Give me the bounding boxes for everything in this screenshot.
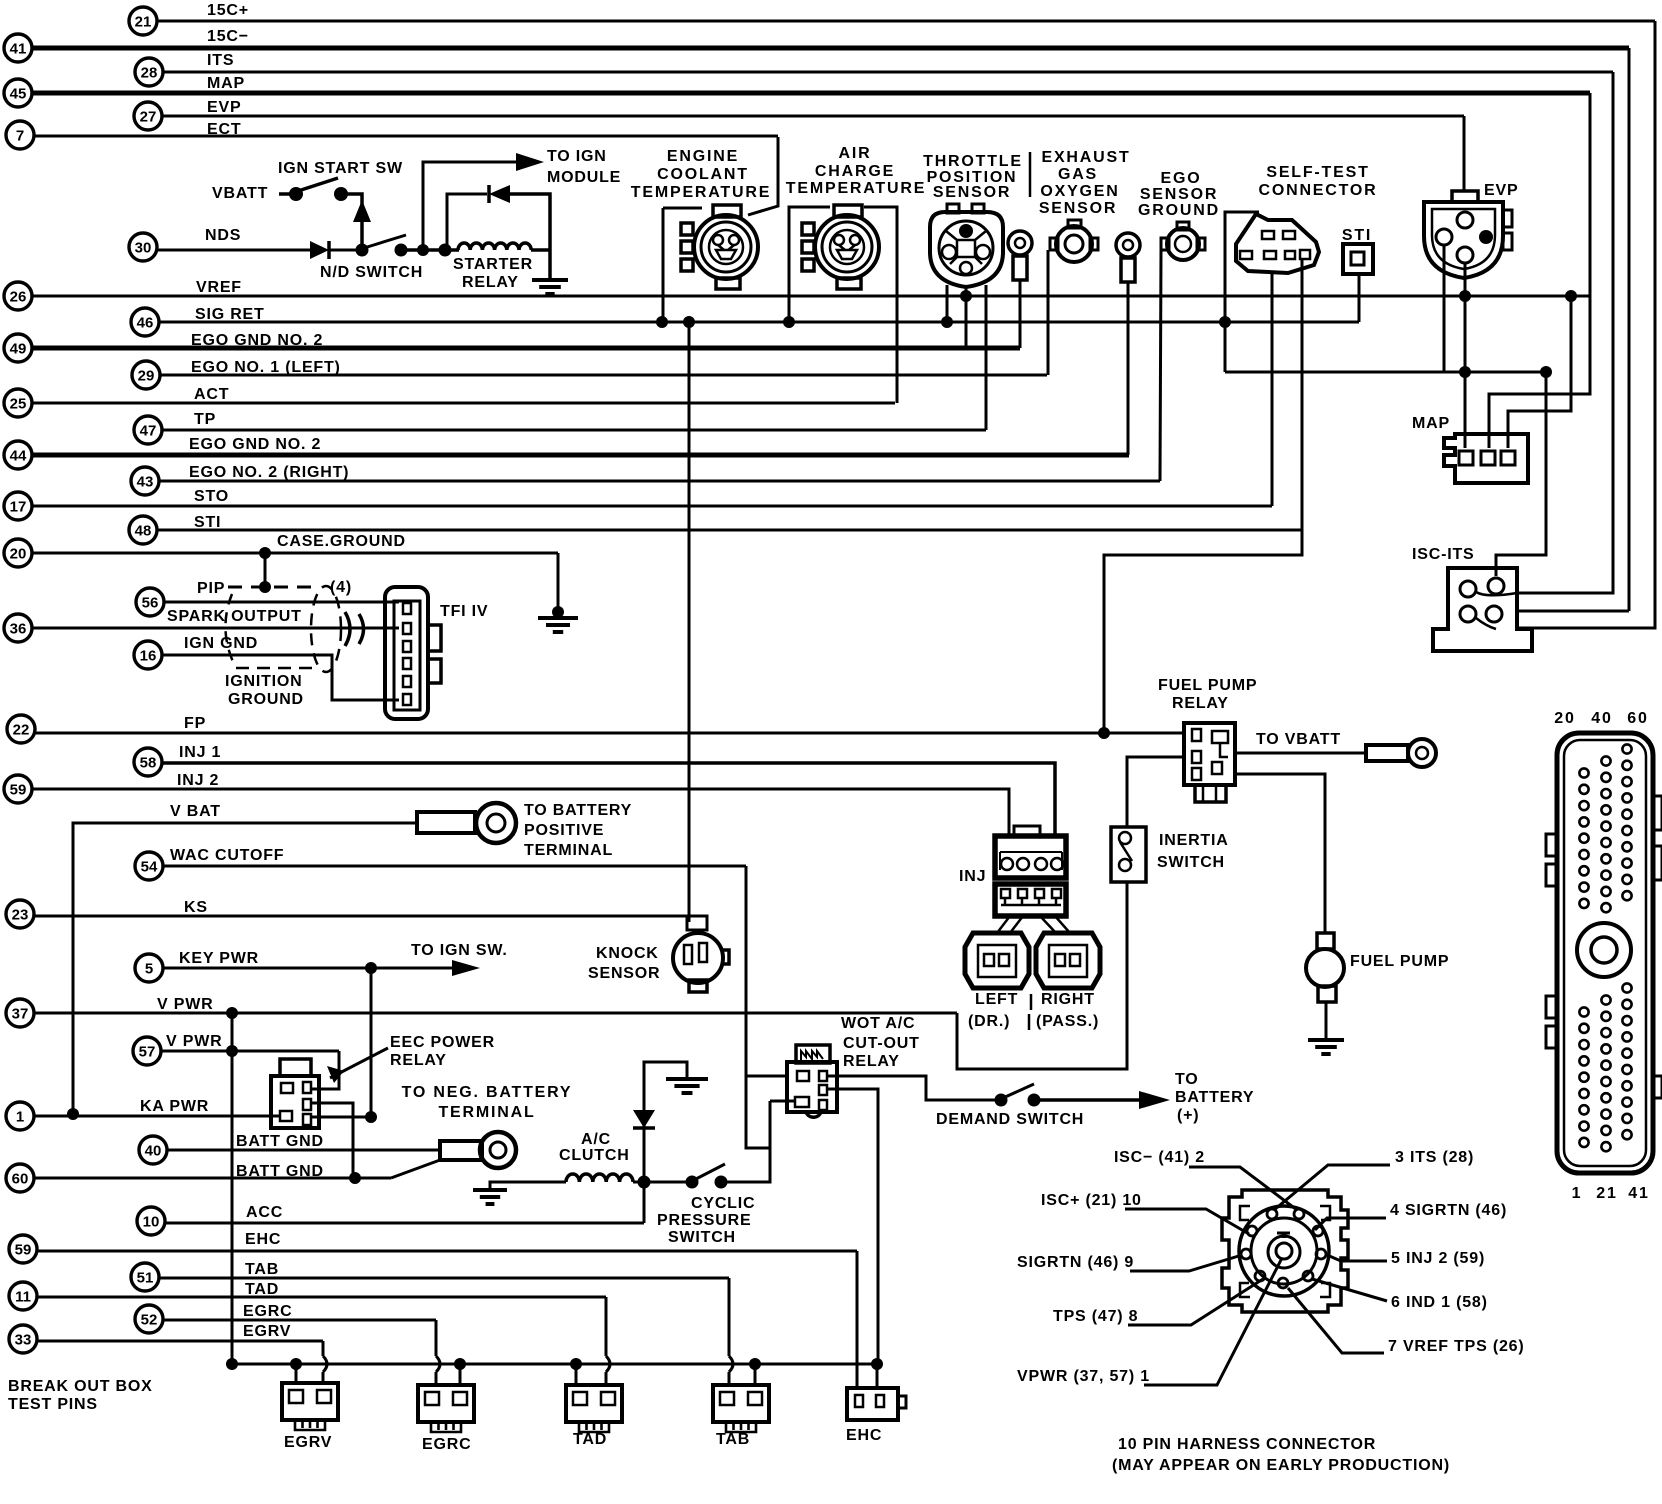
self-test connector	[1236, 214, 1319, 273]
svg-text:56: 56	[142, 595, 159, 612]
svg-text:THROTTLE: THROTTLE	[923, 153, 1023, 170]
arrow to ign sw	[452, 960, 480, 976]
harness dash left arc	[225, 594, 234, 664]
pin 22	[7, 715, 35, 743]
VBATT ring terminal	[1366, 739, 1436, 767]
svg-text:CHARGE: CHARGE	[815, 163, 895, 180]
wire STI box to SIG RET	[1358, 274, 1361, 322]
wire TAB drop	[728, 1278, 731, 1356]
wire EVP center pin down to MAP pin1	[1464, 263, 1467, 448]
contact demand 2	[1028, 1094, 1041, 1107]
wire EGRC from pin 52	[163, 1319, 436, 1322]
TFI IV connector	[385, 587, 441, 719]
svg-text:28: 28	[141, 65, 158, 82]
pin 60	[6, 1164, 34, 1192]
svg-text:FP: FP	[184, 715, 206, 732]
inertia switch	[1111, 827, 1146, 882]
pin 54	[135, 852, 163, 880]
contact cyclic 1	[686, 1176, 699, 1189]
svg-text:11: 11	[15, 1289, 31, 1306]
pin 36	[4, 614, 32, 642]
fuel pump relay	[1184, 723, 1235, 802]
wire WOT to demand switch	[827, 1076, 1001, 1100]
svg-text:26: 26	[10, 289, 27, 306]
lead SIGRTN 4	[1315, 1218, 1386, 1230]
EGRV hop	[323, 1356, 327, 1372]
pin 27	[134, 102, 162, 130]
ground starter relay	[532, 280, 568, 294]
wire line B self-test to ISC	[1225, 371, 1546, 374]
svg-text:7 VREF TPS (26): 7 VREF TPS (26)	[1388, 1338, 1524, 1355]
wire ECT from pin 7	[34, 135, 778, 138]
node V BAT to KA PWR	[67, 1108, 79, 1120]
pin 49	[4, 334, 32, 362]
svg-text:36: 36	[10, 621, 27, 638]
wire EGRC drop2	[435, 1372, 438, 1385]
svg-text:ISC+ (21) 10: ISC+ (21) 10	[1041, 1192, 1142, 1209]
svg-text:IGN START SW: IGN START SW	[278, 160, 403, 177]
wire ACC from pin 10	[165, 1222, 644, 1225]
svg-text:TERMINAL: TERMINAL	[524, 842, 613, 859]
svg-text:VPWR (37, 57) 1: VPWR (37, 57) 1	[1017, 1368, 1150, 1385]
wire 15C- from pin 41	[32, 46, 1629, 51]
arrow up to ign start sw	[353, 200, 371, 222]
node bus 460	[454, 1358, 466, 1370]
svg-text:51: 51	[137, 1270, 154, 1287]
svg-text:48: 48	[135, 523, 152, 540]
svg-text:STARTER: STARTER	[453, 256, 533, 273]
battery negative ring terminal	[440, 1132, 516, 1168]
svg-text:EGO GND NO. 2: EGO GND NO. 2	[191, 332, 323, 349]
arrow line eec relay	[330, 1048, 388, 1078]
svg-text:60: 60	[12, 1171, 29, 1188]
lead TPS 8	[1128, 1279, 1263, 1325]
svg-text:TO IGN SW.: TO IGN SW.	[411, 942, 508, 959]
wire ITS vertical to ISC-ITS	[1517, 72, 1613, 593]
svg-text:V BAT: V BAT	[170, 803, 221, 820]
wire V PWR to inertia switch	[957, 882, 1127, 1069]
svg-text:3 ITS (28): 3 ITS (28)	[1395, 1149, 1474, 1166]
node SIG RET ect	[656, 316, 668, 328]
wire bus to TAD	[575, 1364, 578, 1385]
svg-text:SIG RET: SIG RET	[195, 306, 265, 323]
wire bus to TAB	[754, 1364, 757, 1385]
pin 7	[6, 121, 34, 149]
wire eec bottom pin to key pwr	[311, 1116, 371, 1119]
dashed harness PIP line	[228, 586, 318, 589]
AC clutch coil	[566, 1174, 633, 1182]
wire V BAT	[73, 823, 417, 1114]
wire KA PWR from pin 1	[34, 1115, 280, 1118]
svg-text:TEMPERATURE: TEMPERATURE	[631, 184, 771, 201]
WOT AC cut-out relay	[787, 1045, 837, 1117]
arrowhead eec	[327, 1066, 344, 1083]
svg-text:20: 20	[10, 546, 27, 563]
svg-text:ISC-ITS: ISC-ITS	[1412, 546, 1475, 563]
svg-text:A/C: A/C	[581, 1131, 611, 1148]
pin 29	[132, 361, 160, 389]
node lineB isc	[1540, 366, 1552, 378]
svg-text:17: 17	[10, 499, 27, 516]
svg-text:CLUTCH: CLUTCH	[559, 1147, 630, 1164]
ground AC clutch	[473, 1190, 507, 1204]
pin 11	[9, 1282, 37, 1310]
svg-text:MODULE: MODULE	[547, 169, 621, 186]
ign start switch arm	[298, 178, 338, 191]
wire EGO gnd connector down	[1160, 250, 1161, 481]
EEC power relay	[271, 1059, 319, 1128]
diode NDS	[310, 241, 329, 259]
wire inj plug 4	[1055, 916, 1070, 933]
diode starter relay	[489, 185, 510, 203]
pin 43	[131, 467, 159, 495]
svg-text:GROUND: GROUND	[1138, 202, 1220, 219]
svg-text:49: 49	[10, 341, 27, 358]
svg-text:ECT: ECT	[207, 121, 241, 138]
node bus 755	[749, 1358, 761, 1370]
svg-text:37: 37	[12, 1006, 29, 1023]
svg-text:RELAY: RELAY	[462, 274, 519, 291]
wire eec mid pin to batt gnd	[311, 1103, 353, 1178]
wire EGO NO.1 from pin 29	[160, 374, 1047, 377]
pin 33	[9, 1325, 37, 1353]
svg-text:22: 22	[13, 722, 30, 739]
svg-text:TO NEG. BATTERY: TO NEG. BATTERY	[402, 1084, 573, 1101]
svg-text:IGNITION: IGNITION	[225, 673, 303, 690]
pin 30	[129, 233, 157, 261]
svg-text:TFI IV: TFI IV	[440, 603, 488, 620]
pin 37	[6, 999, 34, 1027]
knock sensor	[673, 916, 729, 992]
lead VREF TPS	[1288, 1288, 1384, 1353]
wire cyclic to WOT relay	[721, 1101, 770, 1182]
svg-text:SENSOR: SENSOR	[1140, 186, 1218, 203]
wire bus to EHC	[876, 1364, 879, 1388]
arrow to battery	[1139, 1091, 1170, 1109]
wire vbatt stub	[279, 192, 296, 196]
svg-text:52: 52	[141, 1312, 158, 1329]
wire bus to EGRV	[295, 1364, 298, 1383]
lead SIGRTN 9	[1130, 1255, 1242, 1271]
wire 15C- to ISC-ITS	[1517, 610, 1629, 613]
svg-text:27: 27	[140, 109, 157, 126]
svg-text:TAD: TAD	[245, 1281, 279, 1298]
wire WAC to WOT top-left pin	[746, 1075, 787, 1078]
node bus 296	[290, 1358, 302, 1370]
pin 28	[135, 58, 163, 86]
svg-text:EGRV: EGRV	[243, 1323, 291, 1340]
svg-text:16: 16	[140, 648, 157, 665]
pin 25	[4, 389, 32, 417]
svg-text:TEMPERATURE: TEMPERATURE	[786, 180, 926, 197]
svg-text:(PASS.): (PASS.)	[1036, 1013, 1099, 1030]
wire ring1 to EGO GND	[1019, 280, 1022, 348]
TPS connector	[930, 204, 1003, 287]
svg-text:EVP: EVP	[207, 99, 241, 116]
wire clutch to ground	[490, 1182, 566, 1188]
pin 56	[136, 588, 164, 616]
10 pin harness connector	[1222, 1190, 1348, 1312]
svg-text:KEY PWR: KEY PWR	[179, 950, 259, 967]
harness dash bottom	[236, 667, 320, 670]
svg-text:FUEL PUMP: FUEL PUMP	[1350, 953, 1449, 970]
svg-text:SENSOR: SENSOR	[933, 184, 1011, 201]
svg-text:CUT-OUT: CUT-OUT	[843, 1035, 920, 1052]
svg-text:RIGHT: RIGHT	[1041, 991, 1095, 1008]
node key pwr branch	[365, 962, 377, 974]
wire EGO NO.2 from pin 43	[159, 480, 1160, 483]
starter relay bracket right	[510, 194, 550, 278]
svg-text:40: 40	[145, 1143, 162, 1160]
svg-text:MAP: MAP	[1412, 415, 1450, 432]
ECT sensor connector	[681, 205, 758, 289]
svg-text:29: 29	[138, 368, 155, 385]
pin 10	[137, 1207, 165, 1235]
svg-text:V PWR: V PWR	[157, 996, 213, 1013]
svg-text:OXYGEN: OXYGEN	[1040, 183, 1119, 200]
pin 23	[6, 900, 34, 928]
TAB hop	[729, 1356, 733, 1372]
svg-text:NDS: NDS	[205, 227, 241, 244]
wire self-test pin to STO	[1271, 272, 1274, 506]
svg-text:47: 47	[140, 423, 157, 440]
wire EGO GND NO.2 from pin 49	[32, 346, 1020, 351]
wire TO VBATT	[1235, 752, 1366, 755]
svg-text:STI: STI	[194, 514, 221, 531]
svg-text:EGRC: EGRC	[243, 1303, 292, 1320]
wire cyclic to WOT bottom-left pin	[770, 1100, 795, 1103]
svg-text:TP: TP	[194, 411, 216, 428]
svg-text:GAS: GAS	[1058, 166, 1098, 183]
svg-text:INJ 1: INJ 1	[179, 744, 221, 761]
pin 58	[134, 748, 162, 776]
svg-text:41: 41	[10, 41, 27, 58]
svg-text:30: 30	[135, 240, 152, 257]
svg-text:4 SIGRTN (46): 4 SIGRTN (46)	[1390, 1202, 1507, 1219]
svg-text:15C−: 15C−	[207, 28, 249, 45]
wire coil to relay right	[531, 248, 550, 252]
TAB connector	[713, 1385, 769, 1432]
svg-text:KNOCK: KNOCK	[596, 945, 659, 962]
svg-text:SIGRTN (46) 9: SIGRTN (46) 9	[1017, 1254, 1134, 1271]
wire FP from pin 22	[35, 732, 1184, 735]
node case ground junction	[259, 547, 271, 559]
svg-text:BATTERY: BATTERY	[1175, 1089, 1254, 1106]
svg-text:21: 21	[1596, 1185, 1617, 1202]
node V PWR 57 bus	[226, 1045, 238, 1057]
INJ connector lower	[995, 884, 1066, 916]
wire NDS from pin 30	[157, 249, 310, 252]
node key pwr eec	[365, 1111, 377, 1123]
TAD connector	[566, 1385, 622, 1432]
node VREF map	[1565, 290, 1577, 302]
wire ACC up to clutch node	[643, 1182, 646, 1223]
svg-text:5: 5	[145, 961, 153, 978]
diode AC	[633, 1110, 655, 1128]
wire lineB to ISC-ITS top pin	[1496, 372, 1546, 576]
lead VPWR	[1144, 1258, 1282, 1385]
wire PIP to TFI pin1	[164, 601, 399, 604]
pin 46	[131, 308, 159, 336]
wire inj plug 3	[1040, 916, 1056, 933]
lead IND1	[1312, 1279, 1387, 1301]
svg-text:CONNECTOR: CONNECTOR	[1258, 182, 1377, 199]
wire ECT sensor left pin down	[662, 208, 665, 322]
svg-text:WAC CUTOFF: WAC CUTOFF	[170, 847, 284, 864]
EGO sensor connector	[1050, 220, 1098, 262]
wire EGO GND NO.2 from pin 44	[32, 453, 1129, 458]
wire 57 to EEC relay	[312, 1051, 339, 1089]
svg-text:TO IGN: TO IGN	[547, 148, 607, 165]
wire bus to EGRC	[459, 1364, 462, 1385]
wire node to cyclic switch	[644, 1181, 692, 1184]
pin 59b	[9, 1235, 37, 1263]
EHC connector	[847, 1388, 906, 1420]
svg-text:IGN GND: IGN GND	[184, 635, 258, 652]
svg-text:RELAY: RELAY	[390, 1052, 447, 1069]
wire ring2 to EGO GND 2	[1127, 282, 1130, 455]
wire EGRV drop2	[322, 1372, 325, 1383]
wire inj plug 1	[997, 916, 1010, 933]
svg-text:40: 40	[1591, 710, 1612, 727]
ISC-ITS connector	[1433, 568, 1532, 651]
svg-text:N/D SWITCH: N/D SWITCH	[320, 264, 423, 281]
EGO sensor ground connector	[1161, 222, 1205, 260]
svg-text:TEST PINS: TEST PINS	[8, 1396, 98, 1413]
node lineB evp	[1459, 366, 1471, 378]
wire coil to node	[633, 1181, 644, 1184]
INJ connector upper	[995, 826, 1066, 878]
svg-text:DEMAND SWITCH: DEMAND SWITCH	[936, 1111, 1084, 1128]
contact ND switch 1	[356, 244, 369, 257]
case ground node	[552, 606, 564, 618]
svg-text:EGO NO. 2 (RIGHT): EGO NO. 2 (RIGHT)	[189, 464, 349, 481]
node VREF tps	[960, 290, 972, 302]
svg-text:5 INJ 2 (59): 5 INJ 2 (59)	[1391, 1250, 1485, 1267]
wire BATT GND from pin 60	[34, 1177, 391, 1180]
wire TAB from pin 51	[159, 1277, 729, 1280]
svg-text:ENGINE: ENGINE	[667, 148, 739, 165]
svg-text:(4): (4)	[330, 579, 352, 596]
svg-text:25: 25	[10, 396, 27, 413]
node VREF evp	[1459, 290, 1471, 302]
node SIG RET act	[783, 316, 795, 328]
wire TP from pin 47	[162, 429, 986, 432]
svg-text:20: 20	[1554, 710, 1575, 727]
wire EHC drop	[856, 1251, 859, 1388]
svg-text:EXHAUST: EXHAUST	[1041, 149, 1130, 166]
pin 57	[133, 1037, 161, 1065]
svg-text:INJ: INJ	[959, 868, 986, 885]
contact demand 1	[995, 1094, 1008, 1107]
node SIG RET knock	[683, 316, 695, 328]
node SIG RET tps	[941, 316, 953, 328]
svg-text:SENSOR: SENSOR	[1039, 200, 1117, 217]
cyclic switch arm	[694, 1164, 725, 1180]
node FP junction	[1098, 727, 1110, 739]
svg-text:21: 21	[135, 14, 152, 31]
ring connector 2	[1116, 233, 1140, 282]
svg-text:TO BATTERY: TO BATTERY	[524, 802, 632, 819]
svg-text:VBATT: VBATT	[212, 185, 268, 202]
node bus 232	[226, 1358, 238, 1370]
svg-text:STO: STO	[194, 488, 229, 505]
node SIG RET self-test	[1219, 316, 1231, 328]
svg-text:43: 43	[137, 474, 154, 491]
pin 52	[135, 1305, 163, 1333]
wire 15C+ from pin 21	[157, 20, 1655, 23]
svg-text:60: 60	[1627, 710, 1648, 727]
node batt gnd relay	[349, 1172, 361, 1184]
svg-text:15C+: 15C+	[207, 2, 249, 19]
RIGHT injector plug	[1036, 933, 1100, 988]
wire case ground drop	[557, 553, 560, 612]
wire self-test to SIG RET vert	[1225, 212, 1259, 372]
wire inj plug 2	[1010, 916, 1023, 933]
pin 5	[135, 954, 163, 982]
svg-text:57: 57	[139, 1044, 156, 1061]
wire ACT left pin	[789, 207, 830, 322]
svg-text:EHC: EHC	[846, 1427, 882, 1444]
node bus 576	[570, 1358, 582, 1370]
svg-text:54: 54	[141, 859, 158, 876]
pin 20	[4, 539, 32, 567]
harness pass marks	[345, 612, 364, 646]
wire EGRV from pin 33	[37, 1340, 323, 1343]
svg-text:EGO: EGO	[1161, 170, 1202, 187]
svg-text:RELAY: RELAY	[843, 1053, 900, 1070]
svg-text:VREF: VREF	[196, 279, 242, 296]
svg-text:FUEL PUMP: FUEL PUMP	[1158, 677, 1257, 694]
wire TPS left pin to SIG RET	[946, 285, 949, 322]
wire V PWR from pin 57	[161, 1050, 339, 1053]
wire STO from pin 17	[32, 505, 1272, 508]
lead ISC+	[1125, 1209, 1249, 1234]
wire VREF bus from pin 26	[32, 295, 1591, 298]
svg-text:1: 1	[1572, 1185, 1583, 1202]
TAD hop	[606, 1356, 610, 1372]
wire TPS right pin to TP	[985, 285, 988, 430]
wire ACT right pin	[864, 207, 897, 403]
60 pin EEC connector	[1546, 710, 1662, 1202]
wire WAC CUTOFF from pin 54	[163, 865, 746, 868]
svg-text:KA PWR: KA PWR	[140, 1098, 209, 1115]
pin 1	[6, 1102, 34, 1130]
wire TPS center pin	[965, 287, 968, 348]
svg-text:EEC POWER: EEC POWER	[390, 1034, 495, 1051]
svg-text:23: 23	[12, 907, 29, 924]
contact ND switch 2	[395, 244, 408, 257]
wire KEY PWR from pin 5	[163, 967, 452, 970]
svg-text:SELF-TEST: SELF-TEST	[1266, 164, 1369, 181]
svg-text:SPARK OUTPUT: SPARK OUTPUT	[167, 608, 302, 625]
svg-text:41: 41	[1628, 1185, 1649, 1202]
wire TAD drop	[605, 1297, 608, 1356]
wire SPARK OUTPUT from pin 36	[32, 627, 399, 630]
svg-text:SWITCH: SWITCH	[668, 1229, 736, 1246]
EGRV connector	[282, 1383, 338, 1430]
svg-text:(DR.): (DR.)	[968, 1013, 1010, 1030]
wire fuel pump to ground	[1325, 1002, 1328, 1040]
wire WAC cutoff down	[746, 866, 770, 1148]
pin 59	[4, 775, 32, 803]
wire BATT GND from pin 40	[167, 1149, 440, 1152]
contact cyclic 2	[715, 1176, 728, 1189]
node PIP	[259, 581, 271, 593]
svg-text:TO: TO	[1175, 1071, 1199, 1088]
svg-text:TERMINAL: TERMINAL	[438, 1104, 535, 1121]
wire to ign module	[423, 162, 516, 250]
